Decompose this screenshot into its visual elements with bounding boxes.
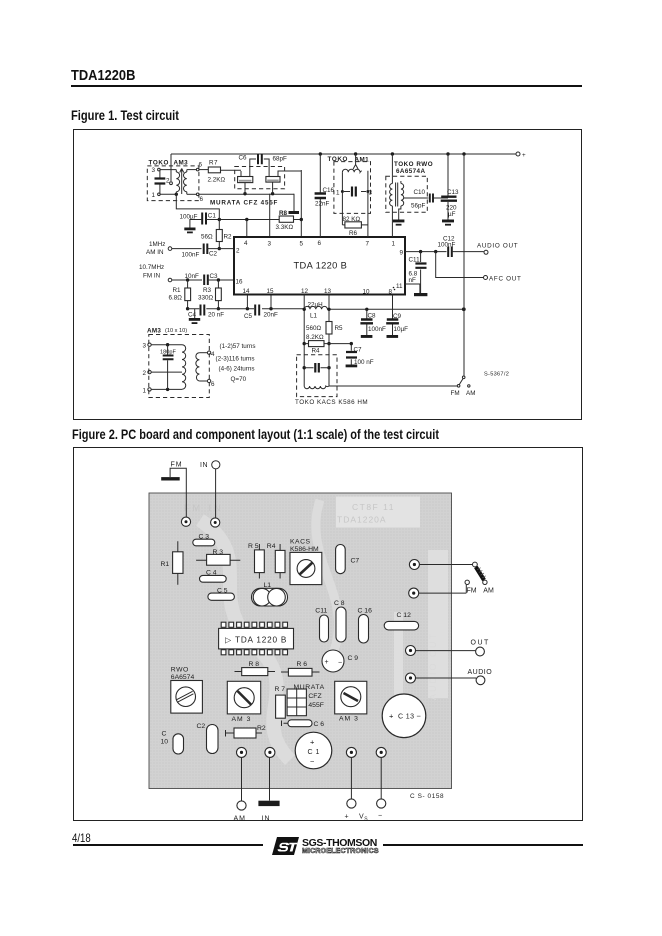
node AM contact	[483, 580, 487, 584]
trimmer RWO 6A6574	[171, 667, 203, 714]
ghost silkscreen text top left	[184, 503, 224, 513]
svg-text:R 5: R 5	[248, 543, 259, 550]
capacitor C10 56pF	[404, 189, 448, 210]
pad hole minus	[376, 747, 386, 757]
svg-text:MICROELECTRONICS: MICROELECTRONICS	[302, 848, 379, 855]
svg-text:2: 2	[166, 178, 170, 185]
wire FM AM switch top	[420, 562, 478, 567]
svg-text:3: 3	[369, 190, 373, 197]
pin 3	[268, 241, 272, 248]
ceramic filter MURATA dashed box	[235, 167, 285, 189]
capacitor C2 100nF	[182, 244, 235, 259]
svg-text:TOKO KACS K586 HM: TOKO KACS K586 HM	[295, 399, 368, 406]
svg-text:S: S	[364, 817, 368, 822]
resistor R1 6.8ohm	[169, 280, 191, 310]
node pin3 of AM3	[152, 167, 177, 174]
svg-text:FM IN: FM IN	[143, 273, 161, 280]
pad hole AUDIO	[406, 673, 416, 683]
capacitor C4 20nF	[188, 305, 224, 319]
resistor R5	[248, 543, 264, 579]
svg-text:R2: R2	[224, 234, 233, 241]
wire KACS to FM switch contact	[329, 385, 457, 387]
svg-text:L1: L1	[310, 313, 318, 320]
node IN input terminal	[200, 461, 220, 518]
svg-text:3: 3	[152, 167, 156, 174]
svg-text:AFC OUT: AFC OUT	[489, 276, 522, 283]
dashed box TOKO KACS K586 HM	[295, 355, 368, 406]
svg-text:AUDIO OUT: AUDIO OUT	[428, 632, 438, 700]
node AUDIO OUT	[477, 243, 518, 255]
pin 14	[243, 288, 251, 295]
switch S-5367/2 FM-AM	[451, 376, 476, 397]
capacitor C11	[315, 608, 328, 643]
svg-text:C4: C4	[188, 312, 197, 319]
resistor jumper FM AM	[476, 567, 486, 580]
svg-text:2: 2	[143, 370, 147, 377]
capacitor C1 100uF	[180, 213, 303, 228]
svg-text:−: −	[417, 711, 422, 720]
transformer AM3 coil spec dashed box	[147, 328, 209, 398]
resistor R6	[281, 661, 320, 676]
svg-text:+: +	[345, 814, 349, 821]
node 2 of AM3 coil	[143, 370, 183, 377]
svg-text:1: 1	[152, 192, 156, 199]
wire pin3 vertical	[269, 194, 271, 237]
svg-text:C6: C6	[239, 155, 248, 162]
svg-text:C7: C7	[351, 558, 360, 565]
node AFC OUT	[484, 276, 522, 283]
node 4 of coil	[199, 351, 215, 358]
svg-text:560Ω: 560Ω	[306, 325, 322, 332]
svg-text:455F: 455F	[308, 702, 324, 709]
pin 2	[236, 248, 240, 255]
figure 1 frame	[73, 129, 582, 420]
PC board	[149, 493, 452, 789]
svg-text:OUT: OUT	[471, 640, 490, 647]
filter MURATA CFZ 455F	[287, 684, 325, 716]
wire pin14 stub	[246, 295, 248, 309]
transformer AM3 (TOKO) dashed box	[147, 160, 199, 201]
capacitor C13	[382, 694, 426, 738]
svg-text:1: 1	[392, 241, 396, 248]
figure 1 caption	[71, 108, 179, 123]
capacitor C7	[336, 545, 360, 574]
svg-text:C2: C2	[197, 723, 206, 730]
capacitor C9 10uF	[386, 295, 408, 338]
svg-text:10nF: 10nF	[185, 273, 200, 280]
ghost silkscreen text top right	[337, 502, 395, 525]
svg-text:CFZ: CFZ	[308, 693, 321, 700]
capacitor 180pF	[160, 345, 176, 390]
pin 12	[301, 288, 309, 295]
svg-text:FM: FM	[171, 462, 183, 469]
capacitor C6 68pF	[239, 154, 288, 177]
svg-text:C 1: C 1	[308, 749, 320, 756]
capacitor C12	[384, 612, 418, 630]
svg-text:3: 3	[268, 241, 272, 248]
pad hole IN	[211, 518, 220, 527]
svg-text:5: 5	[300, 241, 304, 248]
svg-text:4: 4	[211, 351, 215, 358]
svg-text:+: +	[522, 152, 526, 159]
svg-text:FM: FM	[467, 587, 477, 594]
svg-text:IN: IN	[200, 462, 208, 469]
svg-text:(10 x 10): (10 x 10)	[165, 328, 187, 334]
wire AM3 bottom to C1 node	[176, 194, 219, 219]
pad hole out2 right	[409, 588, 419, 598]
svg-text:11: 11	[396, 283, 403, 290]
pin 8	[389, 287, 395, 296]
capacitor C8	[334, 600, 346, 642]
resistor R4	[267, 543, 285, 579]
inductor L1 22uH	[304, 302, 327, 320]
svg-text:AM 3: AM 3	[232, 716, 252, 723]
svg-text:68pF: 68pF	[273, 156, 288, 163]
trimmer AM 3 right	[335, 681, 367, 722]
transformer windings in coil spec box	[182, 345, 199, 389]
resistor R7	[275, 686, 286, 718]
svg-text:AM: AM	[234, 816, 247, 822]
wire AM3 secondary bottom pin6	[187, 192, 294, 203]
svg-text:C 12: C 12	[397, 612, 412, 619]
svg-text:C S- 0158: C S- 0158	[410, 793, 444, 800]
wire pin11 to ground	[405, 284, 420, 293]
wire resonator net to ground stub	[289, 194, 300, 214]
wire pin4 vertical	[246, 220, 248, 238]
svg-text:R7: R7	[209, 160, 218, 167]
svg-text:R3: R3	[203, 287, 212, 294]
footer rule left	[73, 844, 263, 846]
node OUT terminal	[416, 640, 490, 656]
svg-text:C 9: C 9	[348, 655, 359, 662]
svg-text:2: 2	[236, 248, 240, 255]
wire top supply rail	[171, 152, 516, 155]
pad hole OUT	[406, 646, 416, 656]
svg-text:C: C	[162, 731, 167, 738]
svg-text:R 8: R 8	[249, 661, 260, 668]
svg-text:330Ω: 330Ω	[198, 295, 214, 302]
node FM input terminal	[161, 462, 186, 518]
svg-text:10µF: 10µF	[394, 326, 409, 333]
svg-text:3: 3	[143, 343, 147, 350]
transformer RWO windings	[390, 154, 404, 237]
capacitor inside AM1	[336, 187, 373, 197]
capacitor C2	[197, 723, 219, 754]
pad hole IN bottom	[265, 747, 275, 757]
wire +Vs terminal	[345, 758, 369, 823]
svg-text:nF: nF	[409, 277, 417, 284]
svg-text:V: V	[359, 814, 364, 821]
capacitor C3 10nF	[185, 273, 235, 285]
wire bottom rail	[188, 307, 466, 311]
ground for C11	[414, 293, 427, 296]
logo SGS-THOMSON	[268, 834, 383, 858]
svg-text:AM IN: AM IN	[146, 249, 164, 256]
svg-text:20 nF: 20 nF	[208, 312, 224, 319]
pin 15	[267, 288, 275, 295]
svg-text:7: 7	[366, 241, 370, 248]
svg-text:10: 10	[161, 739, 169, 746]
svg-text:KACS: KACS	[290, 539, 311, 546]
wire pin13 vertical	[327, 295, 330, 387]
resistor R3 330ohm	[198, 280, 221, 310]
svg-text:C1: C1	[208, 213, 217, 220]
pin 16	[236, 279, 244, 286]
capacitor C12 100nF	[438, 236, 484, 258]
pin 5	[300, 241, 304, 248]
ground for C1	[184, 228, 195, 234]
pin 1	[392, 241, 396, 248]
capacitor C9	[322, 650, 358, 672]
svg-text:6.8Ω: 6.8Ω	[169, 295, 183, 302]
svg-text:AM3: AM3	[174, 160, 189, 167]
svg-text:6: 6	[199, 162, 203, 169]
capacitor C5 20nF	[244, 305, 278, 321]
footer page number	[72, 831, 91, 845]
svg-text:8: 8	[389, 289, 393, 296]
trimmer KACS K586-HM	[290, 539, 322, 585]
node 1 of AM3 coil	[143, 388, 183, 395]
svg-text:C 6: C 6	[314, 721, 325, 728]
label MURATA CFZ 455F	[210, 200, 278, 207]
svg-text:FM IN: FM IN	[184, 503, 224, 513]
svg-text:56pF: 56pF	[411, 203, 426, 210]
svg-text:C2: C2	[209, 251, 218, 258]
svg-text:1: 1	[336, 190, 340, 197]
coil in KACS box	[304, 386, 329, 389]
transformer AM3 windings	[176, 169, 187, 195]
svg-text:6A6574A: 6A6574A	[396, 168, 425, 175]
resistor R4 8.2K	[304, 334, 351, 355]
pin 13	[324, 288, 332, 295]
wire pin12 vertical	[303, 295, 306, 387]
svg-text:R1: R1	[173, 287, 182, 294]
wire AM terminal	[234, 758, 247, 823]
capacitor C5	[208, 587, 235, 600]
svg-text:AM3: AM3	[147, 328, 161, 335]
svg-text:TDA 1220 B: TDA 1220 B	[294, 261, 348, 271]
capacitor C16	[358, 608, 373, 644]
ceramic resonator right	[266, 171, 301, 194]
svg-text:µF: µF	[448, 211, 456, 218]
label turns spec	[216, 343, 256, 383]
wire rail to AM3 pin2	[166, 154, 172, 185]
svg-text:22nF: 22nF	[315, 201, 330, 208]
pad hole +Vs	[346, 747, 356, 757]
capacitor C8 100nF	[360, 309, 386, 338]
op-amp U1 IC TDA1220B	[234, 237, 405, 295]
svg-text:R 6: R 6	[297, 661, 308, 668]
svg-text:8.2KΩ: 8.2KΩ	[306, 334, 324, 341]
svg-text:9: 9	[400, 250, 404, 257]
capacitor C10	[161, 731, 184, 755]
svg-text:C3: C3	[210, 273, 219, 280]
svg-text:R 7: R 7	[275, 686, 286, 693]
pin 6	[318, 240, 322, 247]
svg-text:6: 6	[318, 240, 322, 247]
svg-text:R1: R1	[161, 561, 170, 568]
svg-text:3.3KΩ: 3.3KΩ	[276, 224, 294, 231]
svg-text:1: 1	[143, 388, 147, 395]
svg-text:(2-3)116 turns: (2-3)116 turns	[216, 356, 255, 363]
svg-text:IN: IN	[262, 816, 271, 822]
svg-text:TOKO RWO: TOKO RWO	[394, 161, 433, 168]
svg-text:AM: AM	[483, 588, 494, 595]
svg-text:6: 6	[200, 196, 204, 203]
wire AFC out	[436, 252, 484, 278]
wire AM3 secondary top to pin6	[187, 162, 209, 171]
svg-text:10: 10	[363, 289, 371, 296]
capacitor C11 6.8nF	[409, 252, 427, 293]
capacitor C3	[193, 534, 215, 546]
svg-text:15: 15	[267, 288, 275, 295]
resistor R5 560ohm	[306, 322, 343, 335]
svg-text:C11: C11	[315, 608, 327, 615]
capacitor C4	[200, 570, 227, 583]
svg-text:(1-2)57 turns: (1-2)57 turns	[220, 343, 256, 350]
resistor R8 3.3K	[276, 210, 294, 231]
resistor R1	[161, 541, 184, 585]
svg-text:10.7MHz: 10.7MHz	[139, 264, 164, 271]
ground for RWO	[393, 220, 405, 226]
capacitor C6	[282, 720, 325, 728]
pin 9	[400, 250, 404, 257]
svg-text:56Ω: 56Ω	[201, 234, 213, 241]
capacitor C16 22nF	[315, 154, 335, 237]
node pin1 of AM3	[152, 192, 179, 199]
svg-text:100nF: 100nF	[438, 242, 456, 249]
svg-text:13: 13	[324, 288, 332, 295]
wire FM AM switch bottom	[419, 587, 494, 594]
transformer AM1 (TOKO) dashed box	[328, 156, 371, 213]
pin 4	[244, 240, 248, 247]
svg-text:−: −	[338, 660, 342, 667]
capacitor C13 220uF	[441, 154, 459, 220]
wire IN terminal	[258, 758, 279, 823]
ground for C4	[189, 318, 200, 324]
wire pin15 stub	[270, 295, 272, 309]
ghost silkscreen text right side	[428, 632, 438, 700]
node 3 of AM3 coil	[143, 343, 183, 350]
svg-text:16: 16	[236, 279, 244, 286]
figure 2 caption	[72, 427, 439, 442]
figure 2 frame	[73, 447, 583, 821]
resistor R7	[208, 160, 242, 184]
capacitor C7 100nF	[346, 342, 374, 367]
svg-text:TDA1220A: TDA1220A	[337, 515, 387, 525]
pad hole FM	[181, 517, 190, 526]
svg-text:AUDIO OUT: AUDIO OUT	[477, 243, 518, 250]
resistor R2 56ohm	[201, 220, 232, 251]
node FM IN	[139, 264, 202, 282]
svg-text:R2: R2	[257, 725, 266, 732]
svg-text:C 8: C 8	[334, 600, 345, 607]
svg-text:2.2KΩ: 2.2KΩ	[208, 177, 226, 184]
node AUDIO terminal	[416, 669, 493, 685]
pin 11	[394, 283, 403, 290]
pin 7	[366, 241, 370, 248]
svg-text:S-5367/2: S-5367/2	[484, 372, 509, 378]
svg-text:FM: FM	[451, 390, 460, 397]
svg-text:100nF: 100nF	[368, 326, 386, 333]
resistor R3	[196, 549, 240, 565]
svg-text:R6: R6	[349, 230, 358, 237]
svg-text:C13: C13	[447, 189, 459, 196]
header rule	[71, 85, 582, 87]
capacitor in KACS box	[304, 363, 329, 373]
svg-text:100nF: 100nF	[182, 252, 200, 259]
svg-text:R4: R4	[312, 348, 321, 355]
svg-text:(4-6) 24turns: (4-6) 24turns	[219, 366, 255, 373]
transformer RWO 6A6574A dashed box	[386, 161, 433, 212]
svg-text:4: 4	[244, 240, 248, 247]
pad hole out1 right	[409, 560, 419, 570]
wire pin5 vertical	[300, 170, 302, 237]
ground for C13	[442, 220, 454, 226]
pin 10	[363, 289, 371, 296]
resistor R6 82K	[342, 192, 368, 238]
svg-text:RWO: RWO	[171, 667, 189, 674]
svg-text:AM1: AM1	[355, 157, 370, 164]
svg-text:14: 14	[243, 288, 251, 295]
svg-text:6: 6	[211, 381, 215, 388]
footer rule right	[383, 844, 583, 846]
svg-text:MURATA CFZ 455F: MURATA CFZ 455F	[210, 200, 278, 207]
node +Vs terminal	[516, 152, 526, 159]
label S-5367/2	[484, 372, 509, 378]
svg-text:+: +	[325, 659, 329, 666]
svg-text:C10: C10	[414, 189, 426, 196]
svg-text:12: 12	[301, 288, 309, 295]
trimmer AM 3 middle	[227, 681, 260, 723]
svg-text:TOKO: TOKO	[149, 160, 169, 167]
resistor R2	[226, 725, 266, 738]
svg-text:20nF: 20nF	[264, 312, 279, 319]
svg-text:R5: R5	[335, 325, 344, 332]
header title TDA1220B	[71, 67, 135, 84]
capacitor inside AM3	[155, 170, 166, 195]
svg-text:+: +	[310, 738, 315, 747]
label C S- 0158	[410, 793, 444, 800]
svg-text:C 13: C 13	[398, 714, 414, 721]
svg-text:R4: R4	[267, 543, 276, 550]
svg-text:−: −	[310, 757, 315, 766]
inductor L1	[252, 582, 288, 606]
node AM IN	[146, 241, 202, 256]
resistor R8	[235, 661, 276, 676]
svg-text:1MHz: 1MHz	[149, 241, 165, 248]
svg-text:TOKO: TOKO	[328, 156, 348, 163]
wire pin9 audio out	[405, 250, 447, 253]
wire switch common vertical	[463, 154, 465, 376]
svg-text:C 16: C 16	[358, 608, 373, 615]
svg-text:CT8F 11: CT8F 11	[352, 502, 395, 512]
svg-text:Q=70: Q=70	[231, 376, 247, 383]
node 6 of coil	[199, 379, 215, 388]
svg-text:AM 3: AM 3	[339, 716, 359, 723]
capacitor C1	[295, 732, 332, 769]
pad hole AM	[237, 747, 247, 757]
svg-text:+: +	[389, 712, 394, 721]
IC TDA1220B on board	[219, 622, 294, 655]
svg-text:▷ TDA 1220 B: ▷ TDA 1220 B	[225, 636, 287, 645]
node FM contact	[465, 580, 469, 593]
svg-text:AM: AM	[466, 390, 475, 397]
transformer AM1 winding	[342, 154, 368, 192]
svg-text:C5: C5	[244, 313, 253, 320]
wire minus terminal	[377, 758, 386, 820]
svg-text:AUDIO: AUDIO	[468, 669, 493, 676]
